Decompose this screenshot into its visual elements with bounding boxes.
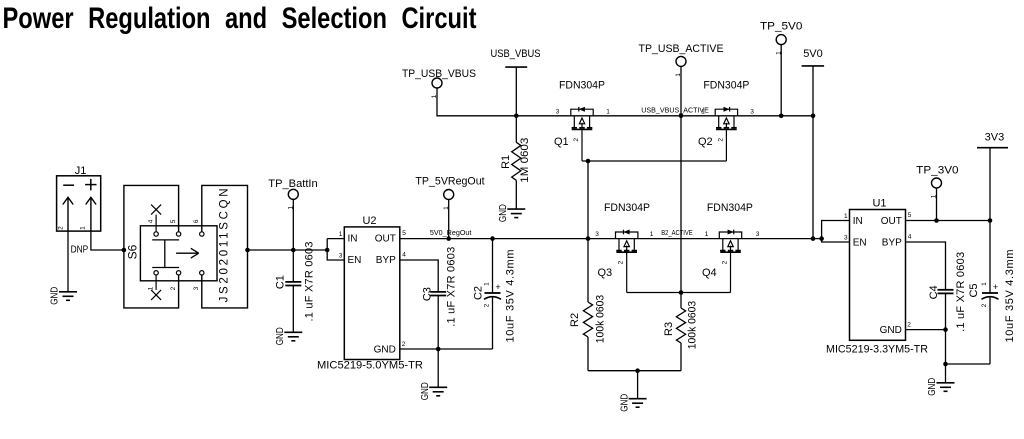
svg-text:2: 2 <box>618 260 625 264</box>
svg-text:IN: IN <box>853 216 863 227</box>
svg-text:5: 5 <box>402 230 406 237</box>
svg-text:1: 1 <box>844 213 848 220</box>
svg-text:4: 4 <box>402 252 406 259</box>
svg-text:1: 1 <box>483 282 490 286</box>
svg-text:GND: GND <box>497 204 509 222</box>
svg-text:3: 3 <box>844 235 848 242</box>
ground GND (J1) <box>59 292 77 301</box>
junction bottom right ground <box>943 362 948 367</box>
regulator U2 MIC5219-5.0YM5-TR <box>344 227 400 360</box>
svg-text:EN: EN <box>348 255 362 266</box>
test point TP_3V0 <box>932 178 942 188</box>
svg-text:FDN304P: FDN304P <box>707 202 753 214</box>
wire TP_USB_VBUS to USB row <box>437 88 813 116</box>
svg-text:1: 1 <box>339 231 343 238</box>
wire C5 to bottom row <box>989 298 991 365</box>
test point TP_USB_ACTIVE <box>676 56 686 66</box>
wire S6 to U2 <box>248 249 328 251</box>
svg-text:4: 4 <box>147 219 154 223</box>
svg-text:.1 uF X7R 0603: .1 uF X7R 0603 <box>303 242 315 322</box>
wire output row to U1 bracket <box>813 238 822 240</box>
wire U1 OUT row <box>906 220 991 222</box>
svg-text:TP_3V0: TP_3V0 <box>916 165 958 177</box>
wire 3V3 vertical <box>989 148 991 221</box>
wire U1 GND stub <box>906 329 946 331</box>
test point TP_USB_VBUS <box>432 78 442 88</box>
svg-text:5V0: 5V0 <box>803 48 823 60</box>
svg-text:3: 3 <box>750 109 754 116</box>
svg-text:J1: J1 <box>75 165 87 177</box>
svg-text:2: 2 <box>170 286 177 290</box>
svg-text:GND: GND <box>880 325 902 336</box>
connector J1 <box>57 176 101 231</box>
svg-text:+: + <box>993 282 998 292</box>
capacitor C3 bypass <box>400 260 438 292</box>
svg-text:Q4: Q4 <box>702 267 717 279</box>
svg-text:GND: GND <box>49 286 61 304</box>
svg-text:U2: U2 <box>362 215 376 227</box>
svg-text:C1: C1 <box>275 275 287 289</box>
capacitor C1 <box>292 250 294 282</box>
svg-text:GND: GND <box>926 377 938 395</box>
svg-text:1: 1 <box>650 231 654 238</box>
wire ground drop <box>637 371 639 399</box>
svg-text:1: 1 <box>981 282 988 286</box>
svg-text:Power Regulation and Selection: Power Regulation and Selection Circuit <box>3 2 477 35</box>
svg-text:100k 0603: 100k 0603 <box>595 295 607 343</box>
svg-text:6: 6 <box>193 219 200 223</box>
wire TP_3V0 stem <box>936 188 938 221</box>
wire U2 ground drop <box>437 349 439 387</box>
svg-text:R2: R2 <box>569 313 581 327</box>
svg-text:3: 3 <box>193 286 200 290</box>
svg-text:U1: U1 <box>872 198 886 210</box>
svg-text:FDN304P: FDN304P <box>604 202 650 214</box>
ground GND (U1) <box>937 383 955 392</box>
S6 no-connect X pin 1 <box>155 275 157 290</box>
wire Q3/Q4 gate net <box>627 292 731 294</box>
svg-text:5: 5 <box>908 212 912 219</box>
svg-text:3: 3 <box>595 231 599 238</box>
svg-text:1: 1 <box>80 226 87 230</box>
svg-text:Q2: Q2 <box>698 136 713 148</box>
svg-text:3V3: 3V3 <box>985 132 1005 144</box>
junction gate net to R2 <box>586 159 591 164</box>
svg-text:1: 1 <box>147 286 154 290</box>
svg-text:1: 1 <box>705 231 709 238</box>
svg-text:2: 2 <box>483 303 490 307</box>
svg-text:TP_BattIn: TP_BattIn <box>268 178 317 190</box>
svg-text:1M 0603: 1M 0603 <box>519 138 531 183</box>
junction S6 output <box>245 248 250 253</box>
svg-text:3: 3 <box>556 109 560 116</box>
svg-text:R3: R3 <box>663 322 675 336</box>
transistor Q3 symbol <box>616 230 638 293</box>
junction output row / R2 <box>586 236 591 241</box>
regulator U1 MIC5219-3.3YM5-TR <box>850 210 906 341</box>
test point TP_BattIn <box>288 189 298 199</box>
svg-text:5V0_RegOut: 5V0_RegOut <box>430 228 472 237</box>
svg-text:BYP: BYP <box>376 255 396 266</box>
svg-text:Q1: Q1 <box>554 136 569 148</box>
svg-text:.1 uF X7R 0603: .1 uF X7R 0603 <box>955 252 967 332</box>
svg-text:3: 3 <box>756 231 760 238</box>
svg-text:10uF 35V 4.3mm: 10uF 35V 4.3mm <box>505 250 517 343</box>
wire Q1/Q2 gate net <box>582 160 726 162</box>
wire TP_BattIn stem <box>292 199 294 250</box>
svg-text:C2: C2 <box>472 286 484 300</box>
capacitor C4 bypass <box>906 242 946 290</box>
S6 common bar <box>152 239 179 241</box>
junction gates / R3 / USB_VBUS_ACTIVE <box>679 290 684 295</box>
wire C2 to U2 gnd row <box>492 298 494 350</box>
svg-text:DNP: DNP <box>71 245 89 256</box>
ground GND (bottom) <box>629 399 647 408</box>
svg-text:OUT: OUT <box>375 234 396 245</box>
svg-text:4: 4 <box>908 234 912 241</box>
switch S6 body <box>140 226 217 281</box>
svg-text:FDN304P: FDN304P <box>559 79 605 91</box>
svg-text:OUT: OUT <box>881 216 902 227</box>
wire U2 IN/EN bracket <box>327 238 344 240</box>
svg-text:MIC5219-5.0YM5-TR: MIC5219-5.0YM5-TR <box>317 360 423 372</box>
junction TP_BattIn / C1 <box>291 248 296 253</box>
svg-text:TP_5VRegOut: TP_5VRegOut <box>415 176 484 188</box>
ground GND (C1) <box>284 332 302 341</box>
junction U1 GND / C4 <box>943 327 948 332</box>
junction at S6 left loop <box>122 248 127 253</box>
wire J1 minus to ground <box>67 231 69 292</box>
ground GND (R1) <box>507 209 525 218</box>
svg-text:3: 3 <box>339 253 343 260</box>
junction USB_VBUS_ACTIVE / TP stem <box>679 114 684 119</box>
svg-text:2: 2 <box>717 138 724 142</box>
svg-text:TP_5V0: TP_5V0 <box>760 21 802 33</box>
svg-text:GND: GND <box>274 327 286 345</box>
junction bottom ground <box>635 368 640 373</box>
svg-text:FDN304P: FDN304P <box>703 79 749 91</box>
svg-text:C3: C3 <box>421 287 433 301</box>
switch S6 outer right loop wire <box>202 185 248 308</box>
svg-text:S6: S6 <box>126 244 140 259</box>
svg-text:2: 2 <box>981 303 988 307</box>
svg-text:GND: GND <box>419 382 431 400</box>
svg-text:GND: GND <box>618 393 630 411</box>
wire gate net down to output row <box>587 161 589 239</box>
svg-text:MIC5219-3.3YM5-TR: MIC5219-3.3YM5-TR <box>826 343 928 355</box>
svg-text:Q3: Q3 <box>598 267 613 279</box>
svg-text:USB_VBUS_ACTIVE: USB_VBUS_ACTIVE <box>641 106 709 115</box>
junction U2 GND / C3 / C2 <box>436 347 441 352</box>
S6 arrow <box>176 252 198 254</box>
svg-text:EN: EN <box>853 237 867 248</box>
capacitor C2 10uF <box>490 236 495 241</box>
wire 5V0 vertical <box>812 66 814 239</box>
wire U2 OUT row (5V0_RegOut) <box>400 238 813 240</box>
svg-text:IN: IN <box>348 234 358 245</box>
S6 pin circles <box>154 232 158 236</box>
svg-text:USB_VBUS: USB_VBUS <box>491 48 541 60</box>
wire TP_USB_ACTIVE stem down to Q3/Q4 gates <box>680 66 682 292</box>
svg-text:BYP: BYP <box>882 237 902 248</box>
transistor Q1 symbol <box>571 107 593 161</box>
svg-text:1: 1 <box>606 109 610 116</box>
svg-text:B2_ACTIVE: B2_ACTIVE <box>661 228 693 237</box>
svg-text:C4: C4 <box>928 285 940 299</box>
resistor R1 1M <box>515 116 517 143</box>
svg-text:10uF 35V 4.3mm: 10uF 35V 4.3mm <box>1004 250 1016 343</box>
svg-text:2: 2 <box>58 226 65 230</box>
test point TP_5V0 <box>776 35 786 45</box>
svg-text:2: 2 <box>907 322 911 329</box>
transistor Q2 symbol <box>715 107 737 161</box>
wire C1 to ground <box>292 286 294 333</box>
wire U1 ground drop <box>945 364 947 383</box>
wire J1 plus to S6 (DNP) <box>91 231 124 250</box>
junction USB_VBUS / R1 <box>514 114 519 119</box>
svg-text:2: 2 <box>722 260 729 264</box>
switch S6 outer left loop wire <box>124 185 179 308</box>
svg-text:2: 2 <box>402 341 406 348</box>
test point TP_5VRegOut <box>444 190 454 200</box>
transistor Q4 symbol <box>719 230 741 293</box>
wire U1 IN/EN bracket <box>822 221 850 243</box>
wire bottom row R2-R3 <box>588 370 681 372</box>
svg-text:+: + <box>495 282 500 292</box>
svg-text:100k 0603: 100k 0603 <box>687 301 699 349</box>
junction U2 enable bracket <box>325 248 330 253</box>
wire TP_5V0 stem <box>780 45 782 116</box>
resistor R2 100k <box>587 239 589 302</box>
svg-text:1: 1 <box>701 109 705 116</box>
svg-text:C5: C5 <box>968 283 980 297</box>
svg-text:2: 2 <box>573 138 580 142</box>
wire TP_5VRegOut stem <box>448 200 450 239</box>
svg-text:R1: R1 <box>500 155 512 169</box>
svg-text:5: 5 <box>170 219 177 223</box>
svg-text:GND: GND <box>374 344 396 355</box>
svg-text:.1 uF X7R 0603: .1 uF X7R 0603 <box>445 247 457 327</box>
resistor R3 100k <box>680 293 682 309</box>
ground GND (U2) <box>429 387 447 396</box>
capacitor C5 10uF <box>989 221 991 294</box>
S6 no-connect X pin 4 <box>155 215 157 232</box>
svg-text:TP_USB_ACTIVE: TP_USB_ACTIVE <box>639 43 724 55</box>
